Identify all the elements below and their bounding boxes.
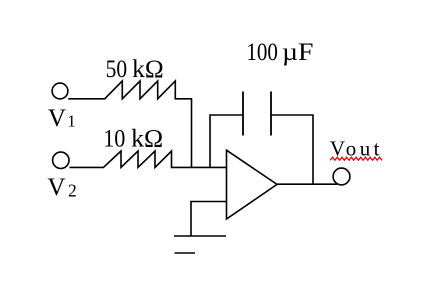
svg-text:kΩ: kΩ — [132, 56, 164, 83]
svg-text:µF: µF — [282, 39, 314, 66]
svg-text:kΩ: kΩ — [131, 126, 163, 153]
svg-text:10: 10 — [103, 126, 125, 153]
svg-text:50: 50 — [106, 56, 128, 83]
svg-text:2: 2 — [68, 180, 77, 200]
svg-text:100: 100 — [246, 39, 278, 66]
svg-text:1: 1 — [67, 111, 76, 130]
svg-text:V: V — [47, 174, 65, 201]
svg-text:V: V — [48, 105, 66, 132]
